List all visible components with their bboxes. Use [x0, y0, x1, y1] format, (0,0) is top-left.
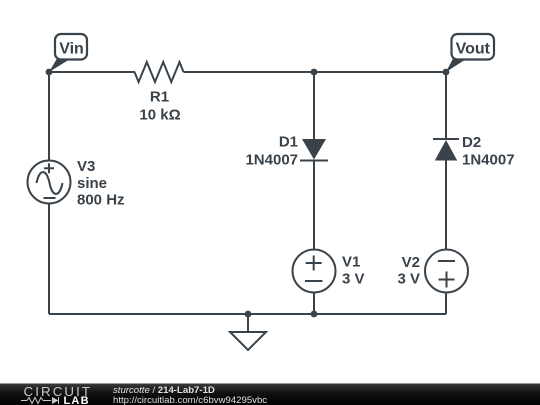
- source V2 plus sign: [439, 272, 455, 288]
- footer bar background: [0, 384, 540, 405]
- footer logo schematic glyph (wire, resistor, diode): [21, 397, 59, 404]
- diode D2: [433, 139, 459, 161]
- svg-text:http://circuitlab.com/c6bvw942: http://circuitlab.com/c6bvw94295vbc: [113, 395, 267, 405]
- svg-text:Vin: Vin: [59, 41, 84, 58]
- wire D2 branch upper (Vout node to D2): [445, 72, 447, 139]
- source V2 minus sign: [438, 260, 455, 262]
- svg-text:V1: V1: [342, 254, 360, 271]
- svg-text:V2: V2: [402, 254, 420, 271]
- wire top rail right segment (node A to Vout node): [314, 71, 446, 73]
- source V3 plus sign: [44, 163, 54, 173]
- wire D2 branch lower (D2 to V2): [445, 161, 447, 250]
- diode D1: [300, 139, 328, 161]
- svg-text:3 V: 3 V: [342, 271, 365, 288]
- svg-text:D2: D2: [462, 134, 481, 151]
- node label Vout flag: [446, 34, 494, 72]
- node A junction dot (top of D1): [311, 69, 318, 76]
- source V3 body: [28, 161, 71, 204]
- source V2 body: [425, 250, 468, 293]
- svg-text:D1: D1: [279, 134, 298, 151]
- junction dot bottom of V1: [311, 311, 318, 318]
- svg-text:sine: sine: [77, 175, 107, 192]
- source V1 body: [293, 250, 336, 293]
- svg-text:LAB: LAB: [64, 395, 90, 405]
- wire V1 to bottom rail: [313, 293, 315, 315]
- wire D1 branch lower (D1 to V1): [313, 161, 315, 250]
- svg-text:1N4007: 1N4007: [462, 152, 515, 169]
- node Vin junction dot: [46, 69, 53, 76]
- svg-text:R1: R1: [150, 89, 169, 106]
- source V3 sine symbol: [37, 172, 63, 194]
- ground symbol: [230, 332, 266, 350]
- wire bottom rail: [49, 313, 446, 315]
- wire V2 to bottom rail corner: [445, 293, 447, 315]
- source V3 minus sign: [44, 197, 56, 199]
- node label Vin flag: [49, 34, 87, 72]
- ground junction dot: [245, 311, 252, 318]
- resistor R1: [135, 62, 184, 82]
- wire top rail left segment (Vin node to R1): [49, 71, 135, 73]
- ground stub wire: [247, 314, 249, 332]
- source V1 minus sign: [305, 280, 322, 282]
- wire left rail upper (Vin node down to V3): [48, 72, 50, 161]
- svg-text:3 V: 3 V: [397, 271, 420, 288]
- svg-text:V3: V3: [77, 158, 95, 175]
- node Vout junction dot: [443, 69, 450, 76]
- svg-text:800 Hz: 800 Hz: [77, 192, 125, 209]
- source V1 plus sign: [306, 256, 322, 271]
- wire D1 branch upper (top rail to D1): [313, 72, 315, 139]
- wire top rail middle segment (R1 to node A): [184, 71, 315, 73]
- svg-text:Vout: Vout: [456, 41, 491, 58]
- wire left rail lower (V3 to bottom rail): [48, 204, 50, 315]
- svg-text:10 kΩ: 10 kΩ: [139, 107, 180, 124]
- svg-text:1N4007: 1N4007: [245, 152, 298, 169]
